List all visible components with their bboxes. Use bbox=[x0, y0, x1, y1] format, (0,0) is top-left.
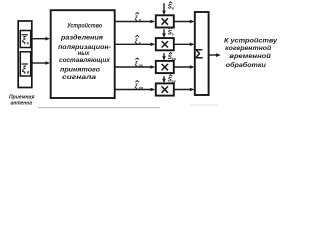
wire: antenna to separator (top) bbox=[32, 37, 50, 41]
multiplier M1 box bbox=[156, 15, 174, 27]
wire: weight S3 into multiplier 3 bbox=[162, 53, 166, 61]
label: S hat 2 bbox=[168, 28, 174, 37]
label xi_g in element 1 bbox=[22, 35, 30, 46]
wire: multiplier 3 to summator bbox=[174, 65, 195, 69]
wire: antenna to separator (bottom) bbox=[32, 61, 50, 65]
wire: separator to multiplier 3 bbox=[115, 65, 156, 69]
svg-text:обработки: обработки bbox=[226, 62, 266, 69]
block: antenna element 1 box bbox=[20, 31, 30, 48]
wire: separator to multiplier 2 bbox=[115, 43, 156, 47]
wire: summator output bbox=[209, 53, 221, 57]
svg-text:К устройству: К устройству bbox=[224, 37, 278, 44]
label: S hat 3 bbox=[168, 52, 177, 61]
svg-text:г: г bbox=[139, 41, 141, 45]
multiplier M3 cross bbox=[162, 64, 168, 70]
wire: multiplier 1 to summator bbox=[174, 20, 195, 24]
multiplier M3 box bbox=[156, 61, 174, 73]
label: xi hat 4 bbox=[135, 81, 144, 91]
svg-text:сигнала: сигнала bbox=[62, 74, 97, 81]
multiplier M2 cross bbox=[162, 41, 168, 47]
svg-text:гг: гг bbox=[172, 80, 176, 84]
text: separator caption (7 lines) bbox=[58, 23, 111, 81]
multiplier M2 box bbox=[156, 38, 174, 50]
svg-text:Σ: Σ bbox=[195, 46, 203, 61]
multiplier M4 box bbox=[156, 83, 174, 95]
caption: to coherent temporal processing device bbox=[224, 37, 278, 68]
svg-text:вг: вг bbox=[139, 64, 143, 68]
label xi_v in element 2 bbox=[22, 64, 30, 75]
svg-text:составляющих: составляющих bbox=[59, 57, 111, 64]
label: xi hat 2 bbox=[135, 35, 141, 45]
svg-text:принятого: принятого bbox=[60, 67, 100, 74]
wire: multiplier 4 to summator bbox=[174, 88, 195, 92]
multiplier M4 cross bbox=[162, 86, 168, 92]
block: polarization separator bbox=[51, 10, 115, 98]
label: xi hat 1 bbox=[135, 13, 142, 23]
svg-text:временной: временной bbox=[229, 53, 271, 60]
wire: separator to multiplier 1 bbox=[115, 20, 156, 24]
scan artifact: faint baseline bbox=[38, 107, 160, 109]
label: S hat 4 bbox=[168, 75, 176, 84]
multiplier M1 cross bbox=[162, 18, 168, 24]
wire: weight S1 into multiplier 1 bbox=[162, 3, 166, 15]
svg-text:когерентной: когерентной bbox=[225, 45, 271, 52]
svg-text:антенна: антенна bbox=[11, 101, 33, 107]
block: antenna element 2 box bbox=[20, 52, 30, 76]
wire: multiplier 2 to summator bbox=[174, 43, 195, 47]
label: S hat 1 bbox=[168, 2, 175, 11]
block: antenna outer box bbox=[18, 21, 32, 88]
wire: separator to multiplier 4 bbox=[115, 88, 156, 92]
svg-text:г: г bbox=[172, 32, 174, 36]
block: summator bbox=[195, 12, 209, 95]
wire: weight S4 into multiplier 4 bbox=[162, 76, 166, 83]
svg-text:Устройство: Устройство bbox=[67, 23, 102, 30]
svg-text:разделения: разделения bbox=[60, 35, 104, 42]
label: xi hat 3 bbox=[135, 58, 143, 68]
wire: weight S2 into multiplier 2 bbox=[162, 29, 166, 38]
caption: priyomnaya antenna bbox=[9, 95, 35, 107]
